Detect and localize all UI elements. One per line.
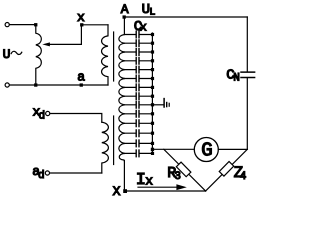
capacitor row 5 [124, 69, 152, 71]
primary winding upper (x-a) [102, 25, 108, 85]
tap with probe symbol [152, 104, 163, 106]
capacitor row 1 [124, 34, 152, 36]
bridge arm R3 diagonal [164, 149, 206, 191]
capacitor row 9 [124, 104, 152, 106]
junction dot variac top [34, 23, 37, 26]
junction dot variac bottom [34, 83, 37, 86]
terminal x_d [46, 111, 50, 115]
node x dot [80, 23, 83, 26]
svg-text:a: a [77, 70, 85, 85]
autotransformer variac winding [36, 25, 42, 85]
wire bus to galvanometer [152, 148, 194, 150]
resistor R3 [176, 162, 191, 177]
bridge arm Z4 diagonal [206, 149, 248, 191]
terminal a_d [45, 171, 49, 175]
capacitor row 3 [124, 51, 152, 53]
capacitor row 6 [124, 78, 152, 80]
svg-text:U: U [3, 47, 11, 62]
top wire A to right [124, 16, 247, 18]
svg-text:A: A [121, 2, 129, 17]
wire bottom-left [10, 84, 109, 86]
capacitor row 2 [124, 42, 152, 44]
wire x to primary [82, 24, 108, 26]
current arrow I_x [138, 186, 178, 188]
capacitor bus [151, 33, 153, 153]
svg-text:x: x [77, 10, 85, 25]
HV winding bottom lead to X [123, 161, 125, 192]
svg-text:X: X [113, 184, 121, 199]
svg-text:G: G [201, 139, 212, 161]
core bar upper [113, 32, 115, 81]
terminal top-left [5, 23, 9, 27]
galvanometer G [194, 138, 218, 162]
capacitor row 14 [124, 152, 152, 154]
svg-text:N: N [233, 73, 240, 85]
capacitor row 10 [124, 113, 152, 115]
terminal bottom-left [5, 83, 9, 87]
svg-text:d: d [39, 111, 46, 123]
capacitor row 4 [124, 60, 152, 62]
right vertical wire [246, 17, 248, 149]
node a dot [80, 83, 83, 86]
svg-text:4: 4 [240, 171, 247, 183]
svg-text:x: x [145, 174, 153, 189]
capacitor row 8 [124, 95, 152, 97]
capacitor row 11 [124, 122, 152, 124]
wire top-left [10, 24, 35, 26]
capacitor row 7 [124, 86, 152, 88]
core bar lower [113, 116, 115, 165]
node X dot [123, 189, 127, 193]
junction dot bus to galvanometer [151, 148, 154, 151]
svg-text:3: 3 [174, 171, 181, 183]
capacitor C_N [241, 72, 255, 77]
primary winding lower (xd-ad) [102, 122, 109, 173]
node A dot [123, 15, 126, 18]
bottom wire X to bridge [124, 190, 205, 192]
wire a_d [50, 172, 102, 174]
capacitor row 12 [124, 132, 152, 134]
svg-text:d: d [38, 170, 45, 182]
capacitor row 13 [124, 142, 152, 144]
svg-text:x: x [140, 20, 147, 34]
wire galvanometer to right [218, 148, 247, 150]
wiper arrow of variac [49, 27, 82, 45]
wire x_d [50, 114, 102, 123]
HV winding turns [119, 35, 125, 162]
HV winding vertical from A [123, 17, 125, 35]
impedance Z4 [219, 161, 234, 176]
